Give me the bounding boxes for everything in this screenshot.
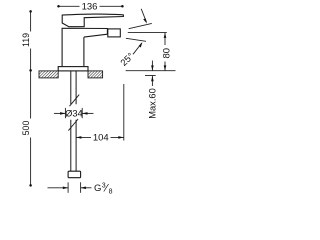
dimension G3/8 tick right <box>80 182 82 193</box>
dimension shared dot at deck <box>29 69 32 72</box>
dimension 119 dot top <box>29 10 32 13</box>
dimension G3/8 arrow right <box>81 187 92 190</box>
dimension 136 line <box>59 5 123 7</box>
dimension 80 line <box>164 33 166 71</box>
aerator cap <box>108 29 121 37</box>
dimension 80 arrow top <box>164 33 167 38</box>
angle 25 upper arrow <box>141 9 147 24</box>
dimension 104 extension line <box>123 84 125 141</box>
angle 25 lower arm <box>126 38 146 41</box>
max60 arrow down <box>151 61 154 71</box>
dimension 119-500 vertical line <box>30 11 32 185</box>
dimension 136 dot left <box>57 5 60 8</box>
dimension O34 arrow left <box>54 112 66 115</box>
pipe break line upper <box>70 95 80 107</box>
pipe break line lower <box>68 119 78 131</box>
dimension O34 tick right <box>81 108 83 118</box>
svg-text:119: 119 <box>21 33 31 47</box>
svg-text:104: 104 <box>93 133 109 144</box>
dimension 104 arrow right <box>118 136 123 139</box>
dimension G3/8 arrow left <box>48 187 69 190</box>
bidet rim level line <box>126 70 176 72</box>
svg-text:Ø34: Ø34 <box>65 109 83 119</box>
dimension 104 arrow left <box>76 136 81 139</box>
dimension 500 dot bottom <box>29 184 32 187</box>
faucet lever handle <box>62 14 123 27</box>
svg-text:8: 8 <box>109 189 113 196</box>
svg-text:G: G <box>94 183 101 194</box>
countertop right hatch <box>88 71 103 78</box>
angle 25 lower arrow <box>133 42 142 54</box>
max60 deck bottom extension line <box>145 75 156 77</box>
dimension 80 arrow bottom <box>164 65 167 70</box>
supply pipe <box>71 71 76 171</box>
base flange <box>58 67 88 71</box>
G3/8 connector nut <box>68 171 81 178</box>
dimension 104 line <box>76 136 124 138</box>
countertop left hatch <box>39 71 58 78</box>
dimension G3/8 tick left <box>67 182 69 193</box>
dimension O34 arrow right <box>82 112 93 115</box>
svg-text:80: 80 <box>162 48 173 59</box>
svg-text:500: 500 <box>21 121 31 136</box>
max60 arrow up <box>151 76 154 86</box>
dimension 136 dot right <box>121 5 124 8</box>
svg-text:Max.60: Max.60 <box>147 88 157 119</box>
faucet body and spout outline <box>62 28 107 66</box>
dimension O34 tick left <box>64 108 66 118</box>
svg-text:136: 136 <box>82 2 98 13</box>
angle 25 upper arm <box>129 23 152 28</box>
spout outlet level extension line <box>128 32 167 34</box>
